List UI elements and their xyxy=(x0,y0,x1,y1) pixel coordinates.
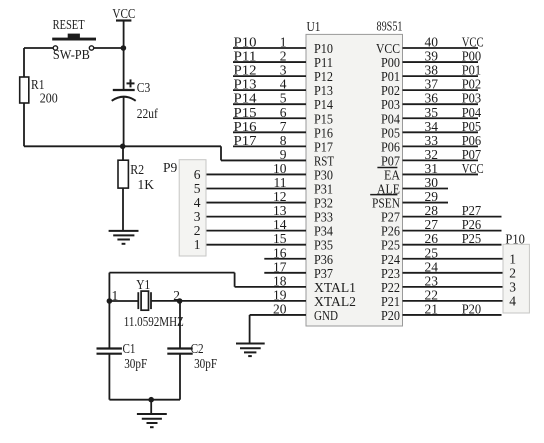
svg-text:P34: P34 xyxy=(314,224,333,239)
junction R1-C3-R2 node xyxy=(120,144,126,150)
svg-text:P15: P15 xyxy=(314,111,333,126)
label C1 value 30pF xyxy=(124,356,147,371)
resistor R2 body xyxy=(118,160,128,188)
svg-text:XTAL2: XTAL2 xyxy=(314,294,356,309)
label C2 value 30pF xyxy=(194,356,217,371)
svg-text:10: 10 xyxy=(273,161,287,176)
net label P10 (pin 1) xyxy=(234,35,257,50)
wire R1 bottom xyxy=(23,103,25,146)
svg-text:39: 39 xyxy=(425,49,439,64)
net label P12 (pin 3) xyxy=(234,63,257,78)
junction ground rail xyxy=(148,397,154,403)
svg-text:32: 32 xyxy=(425,147,439,162)
svg-text:P13: P13 xyxy=(314,83,333,98)
svg-text:VCC: VCC xyxy=(376,41,400,56)
wire crystal pin2 to C2 xyxy=(179,301,181,349)
svg-text:38: 38 xyxy=(425,63,439,78)
svg-text:P02: P02 xyxy=(462,77,482,92)
U1 pin 31 EA (wire, pin number, pin name) xyxy=(384,161,484,183)
svg-text:P06: P06 xyxy=(381,139,400,154)
svg-text:P37: P37 xyxy=(314,266,333,281)
U1 pin 18 XTAL1 (wire, pin number, pin name) xyxy=(235,273,356,295)
label C3 xyxy=(137,80,151,95)
U1 pin 2 P11 (wire, pin number, pin name) xyxy=(233,49,333,71)
svg-text:P22: P22 xyxy=(381,280,400,295)
svg-text:Y1: Y1 xyxy=(136,277,150,292)
U1 pin 21 P20 (wire, pin number, pin name) xyxy=(381,301,502,323)
label RESET xyxy=(53,17,86,32)
U1 pin 7 P16 (wire, pin number, pin name) xyxy=(233,119,333,141)
wire C2 to ground rail xyxy=(179,354,181,400)
svg-text:30pF: 30pF xyxy=(124,356,147,371)
U1 pin 8 P17 (wire, pin number, pin name) xyxy=(233,133,333,155)
U1 pin 20 GND (wire, pin number, pin name) xyxy=(250,301,339,323)
wire VCC to C3 xyxy=(123,48,125,90)
svg-text:30pF: 30pF xyxy=(194,356,217,371)
wire button left xyxy=(24,47,53,49)
wire button right to VCC xyxy=(94,47,124,49)
svg-text:P07: P07 xyxy=(462,147,482,162)
label R1 value 200 xyxy=(40,91,58,106)
svg-text:P20: P20 xyxy=(462,301,482,316)
svg-text:P21: P21 xyxy=(381,294,400,309)
svg-text:P23: P23 xyxy=(381,266,400,281)
svg-text:P04: P04 xyxy=(381,111,400,126)
svg-text:P12: P12 xyxy=(314,69,333,84)
U1 pin 14 P34 (wire, pin number, pin name) xyxy=(206,217,333,239)
wire C3 to junction xyxy=(123,98,125,147)
power symbol VCC xyxy=(112,6,135,48)
U1 pin 39 P00 (wire, pin number, pin name) xyxy=(381,49,481,71)
capacitor C1 plates xyxy=(97,349,122,354)
label C3 value 22uf xyxy=(137,106,158,121)
svg-text:XTAL1: XTAL1 xyxy=(314,280,356,295)
svg-text:P07: P07 xyxy=(381,153,400,168)
svg-text:30: 30 xyxy=(425,175,439,190)
U1 pin 30 ALE (wire, pin number, pin name) xyxy=(377,175,448,197)
svg-text:RST: RST xyxy=(314,153,335,168)
svg-text:P11: P11 xyxy=(234,49,257,64)
svg-text:26: 26 xyxy=(425,231,439,246)
label Y1 value 11.0592MHZ xyxy=(124,314,184,329)
wire C1 to ground rail xyxy=(108,354,110,400)
U1 pin 32 P07 (wire, pin number, pin name) xyxy=(381,147,481,169)
U1 pin 25 P24 (wire, pin number, pin name) xyxy=(381,245,503,267)
U1 pin 23 P22 (wire, pin number, pin name) xyxy=(381,273,503,295)
net label P11 (pin 2) xyxy=(234,49,257,64)
svg-text:P24: P24 xyxy=(381,252,400,267)
svg-text:P14: P14 xyxy=(234,91,257,106)
svg-text:R2: R2 xyxy=(130,162,144,177)
overline above EA pin name xyxy=(377,167,397,169)
U1 pin 40 VCC (wire, pin number, pin name) xyxy=(376,35,484,57)
svg-text:6: 6 xyxy=(194,167,201,182)
svg-text:89S51: 89S51 xyxy=(377,19,403,34)
junction button-VCC xyxy=(121,45,127,51)
U1 pin 36 P03 (wire, pin number, pin name) xyxy=(381,91,481,113)
svg-text:P10: P10 xyxy=(314,41,333,56)
svg-text:P01: P01 xyxy=(462,63,482,78)
crystal Y1 body xyxy=(141,291,148,310)
U1 pin 27 P26 (wire, pin number, pin name) xyxy=(381,217,502,239)
U1 pin 22 P21 (wire, pin number, pin name) xyxy=(381,287,503,309)
svg-text:P20: P20 xyxy=(381,308,400,323)
svg-text:1K: 1K xyxy=(138,177,155,192)
svg-text:C1: C1 xyxy=(123,341,136,356)
svg-text:3: 3 xyxy=(280,63,287,78)
svg-text:22uf: 22uf xyxy=(137,106,158,121)
U1 pin 33 P06 (wire, pin number, pin name) xyxy=(381,133,481,155)
pushbutton SW-PB contact circles xyxy=(53,46,94,50)
svg-text:P16: P16 xyxy=(314,125,333,140)
svg-text:P30: P30 xyxy=(314,167,333,182)
U1 pin 12 P32 (wire, pin number, pin name) xyxy=(206,189,333,211)
svg-text:4: 4 xyxy=(280,77,287,92)
svg-text:28: 28 xyxy=(425,203,439,218)
ground below R2 xyxy=(109,231,139,244)
svg-text:200: 200 xyxy=(40,91,58,106)
svg-text:P35: P35 xyxy=(314,238,333,253)
svg-text:22: 22 xyxy=(425,287,439,302)
svg-text:P10: P10 xyxy=(234,35,257,50)
svg-text:17: 17 xyxy=(273,259,287,274)
svg-text:C3: C3 xyxy=(137,80,151,95)
svg-text:P15: P15 xyxy=(234,105,257,120)
connector P9 pin 6 xyxy=(194,167,201,182)
svg-text:SW-PB: SW-PB xyxy=(53,47,90,62)
svg-text:2: 2 xyxy=(194,223,201,238)
connector P10 pin 3 xyxy=(509,279,516,294)
svg-text:P33: P33 xyxy=(314,210,333,225)
U1 pin 19 XTAL2 (wire, pin number, pin name) xyxy=(151,287,356,309)
svg-text:EA: EA xyxy=(384,167,400,182)
svg-text:P03: P03 xyxy=(381,97,400,112)
svg-text:37: 37 xyxy=(425,77,439,92)
svg-text:2: 2 xyxy=(509,265,516,280)
svg-text:12: 12 xyxy=(273,189,287,204)
U1 pin 28 P27 (wire, pin number, pin name) xyxy=(381,203,502,225)
svg-text:24: 24 xyxy=(425,259,439,274)
U1 reference designator xyxy=(307,19,321,34)
svg-text:P04: P04 xyxy=(462,105,482,120)
U1 pin 16 P36 (wire, pin number, pin name) xyxy=(264,245,333,267)
svg-text:5: 5 xyxy=(194,181,201,196)
wire R1 top xyxy=(23,48,25,77)
ground below crystal caps xyxy=(137,414,167,427)
U1 pin 9 RST (wire, pin number, pin name) xyxy=(221,147,335,169)
overline above PSEN pin name xyxy=(370,194,397,196)
svg-text:P9: P9 xyxy=(163,160,178,175)
svg-text:P06: P06 xyxy=(462,133,482,148)
U1 pin 1 P10 (wire, pin number, pin name) xyxy=(233,35,333,57)
svg-text:19: 19 xyxy=(273,287,287,302)
net label P17 (pin 8) xyxy=(234,133,257,148)
U1 pin 13 P33 (wire, pin number, pin name) xyxy=(206,203,333,225)
svg-text:VCC: VCC xyxy=(112,6,135,21)
label Y1 xyxy=(136,277,150,292)
svg-text:P13: P13 xyxy=(234,77,257,92)
U1 pin 35 P04 (wire, pin number, pin name) xyxy=(381,105,481,127)
svg-text:P00: P00 xyxy=(462,49,482,64)
svg-text:C2: C2 xyxy=(191,341,204,356)
C3 polarity plus sign xyxy=(127,79,135,87)
svg-text:P36: P36 xyxy=(314,252,333,267)
op-amp U1 89S51 microcontroller body xyxy=(306,34,403,326)
svg-text:P25: P25 xyxy=(381,238,400,253)
label R1 xyxy=(31,77,45,92)
wire crystal to C1 xyxy=(108,301,110,349)
svg-text:25: 25 xyxy=(425,245,439,260)
svg-text:15: 15 xyxy=(273,231,287,246)
svg-text:RESET: RESET xyxy=(53,17,86,32)
svg-text:4: 4 xyxy=(509,293,516,308)
wire R2 to ground xyxy=(122,188,124,231)
junction crystal pin1 node xyxy=(107,298,113,304)
U1 value 89S51 xyxy=(377,19,403,34)
U1 pin 10 P30 (wire, pin number, pin name) xyxy=(206,161,333,183)
svg-text:6: 6 xyxy=(280,105,287,120)
svg-text:18: 18 xyxy=(273,273,287,288)
U1 pin 26 P25 (wire, pin number, pin name) xyxy=(381,231,502,253)
svg-text:P17: P17 xyxy=(234,133,257,148)
net label P16 (pin 7) xyxy=(234,119,257,134)
net label P15 (pin 6) xyxy=(234,105,257,120)
svg-text:11: 11 xyxy=(274,175,287,190)
U1 pin 15 P35 (wire, pin number, pin name) xyxy=(206,231,333,253)
crystal Y1 left lead xyxy=(109,300,138,302)
wire ground rail xyxy=(109,400,180,414)
pushbutton SW-PB RESET actuator bar xyxy=(52,34,96,41)
svg-text:P10: P10 xyxy=(505,232,525,247)
svg-text:P01: P01 xyxy=(381,69,400,84)
svg-text:P25: P25 xyxy=(462,231,482,246)
net label P13 (pin 4) xyxy=(234,77,257,92)
ground at GND pin 20 xyxy=(236,344,265,357)
svg-text:P17: P17 xyxy=(314,139,333,154)
svg-text:P03: P03 xyxy=(462,91,482,106)
wire GND pin 20 to ground xyxy=(249,315,251,344)
capacitor C3 plates xyxy=(112,90,136,101)
U1 pin 24 P23 (wire, pin number, pin name) xyxy=(381,259,503,281)
svg-text:20: 20 xyxy=(273,301,287,316)
junction crystal pin2 node xyxy=(177,298,183,304)
svg-text:PSEN: PSEN xyxy=(372,196,400,211)
connector P10 pin 4 xyxy=(509,293,516,308)
U1 pin 17 P37 (wire, pin number, pin name) xyxy=(264,259,333,281)
svg-text:P02: P02 xyxy=(381,83,400,98)
U1 pin 4 P13 (wire, pin number, pin name) xyxy=(233,77,333,99)
wire junction to R2 xyxy=(122,146,124,160)
svg-text:P05: P05 xyxy=(381,125,400,140)
U1 pin 29 PSEN (wire, pin number, pin name) xyxy=(372,189,448,211)
svg-text:11.0592MHZ: 11.0592MHZ xyxy=(124,314,184,329)
wire XTAL1 path xyxy=(109,273,234,301)
svg-text:P11: P11 xyxy=(314,55,333,70)
svg-text:P12: P12 xyxy=(234,63,257,78)
U1 pin 34 P05 (wire, pin number, pin name) xyxy=(381,119,481,141)
svg-text:P16: P16 xyxy=(234,119,257,134)
svg-text:P27: P27 xyxy=(462,203,482,218)
svg-text:2: 2 xyxy=(280,49,287,64)
svg-text:P27: P27 xyxy=(381,210,400,225)
net label P14 (pin 5) xyxy=(234,91,257,106)
svg-text:P26: P26 xyxy=(462,217,482,232)
svg-text:8: 8 xyxy=(280,133,287,148)
svg-text:36: 36 xyxy=(425,91,439,106)
U1 pin 5 P14 (wire, pin number, pin name) xyxy=(233,91,333,113)
connector P9 pin 1 xyxy=(194,237,201,252)
svg-text:3: 3 xyxy=(509,279,516,294)
svg-text:21: 21 xyxy=(425,301,439,316)
svg-text:5: 5 xyxy=(280,91,287,106)
U1 pin 37 P02 (wire, pin number, pin name) xyxy=(381,77,481,99)
crystal Y1 pin 1 number xyxy=(112,288,119,303)
U1 pin 6 P15 (wire, pin number, pin name) xyxy=(233,105,333,127)
U1 pin 38 P01 (wire, pin number, pin name) xyxy=(381,63,481,85)
svg-text:13: 13 xyxy=(273,203,287,218)
svg-text:P31: P31 xyxy=(314,182,333,197)
connector P10 pin 2 xyxy=(509,265,516,280)
svg-text:1: 1 xyxy=(509,251,516,266)
svg-text:14: 14 xyxy=(273,217,287,232)
svg-text:P32: P32 xyxy=(314,196,333,211)
svg-text:31: 31 xyxy=(425,161,439,176)
svg-text:35: 35 xyxy=(425,105,439,120)
svg-text:16: 16 xyxy=(273,245,287,260)
crystal Y1 left plate xyxy=(137,292,139,309)
wire R1 to junction to RST xyxy=(24,146,306,160)
connector P9 body xyxy=(179,160,206,256)
U1 pin 11 P31 (wire, pin number, pin name) xyxy=(206,175,333,197)
label C1 xyxy=(123,341,136,356)
svg-text:4: 4 xyxy=(194,195,201,210)
svg-text:U1: U1 xyxy=(307,19,321,34)
svg-text:34: 34 xyxy=(425,119,439,134)
crystal Y1 pin 2 number xyxy=(173,288,180,303)
svg-text:3: 3 xyxy=(194,209,201,224)
label R2 value 1K xyxy=(138,177,155,192)
crystal Y1 right plate xyxy=(150,292,152,309)
svg-text:7: 7 xyxy=(280,119,287,134)
connector P9 pin 2 xyxy=(194,223,201,238)
svg-text:P00: P00 xyxy=(381,55,400,70)
connector P9 label xyxy=(163,160,178,175)
svg-text:1: 1 xyxy=(194,237,201,252)
svg-text:P26: P26 xyxy=(381,224,400,239)
label C2 xyxy=(191,341,204,356)
svg-text:GND: GND xyxy=(314,308,338,323)
connector P10 label xyxy=(505,232,525,247)
svg-text:27: 27 xyxy=(425,217,439,232)
svg-text:33: 33 xyxy=(425,133,439,148)
svg-text:P05: P05 xyxy=(462,119,482,134)
capacitor C2 plates xyxy=(167,349,192,354)
svg-text:29: 29 xyxy=(425,189,439,204)
connector P10 body xyxy=(503,244,529,313)
svg-text:VCC: VCC xyxy=(462,161,484,176)
svg-text:1: 1 xyxy=(280,35,287,50)
connector P9 pin 3 xyxy=(194,209,201,224)
label R2 xyxy=(130,162,144,177)
connector P9 pin 5 xyxy=(194,181,201,196)
label SW-PB xyxy=(53,47,90,62)
svg-text:P14: P14 xyxy=(314,97,333,112)
connector P10 pin 1 xyxy=(509,251,516,266)
resistor R1 body xyxy=(20,77,29,103)
svg-text:23: 23 xyxy=(425,273,439,288)
svg-text:VCC: VCC xyxy=(462,35,484,50)
svg-text:40: 40 xyxy=(425,35,439,50)
connector P9 pin 4 xyxy=(194,195,201,210)
U1 pin 3 P12 (wire, pin number, pin name) xyxy=(233,63,333,85)
